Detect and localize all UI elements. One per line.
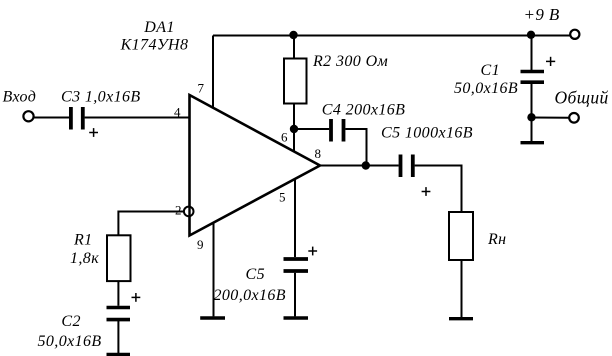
capacitor C3 plates [71, 107, 83, 130]
op-amp DA1 triangle [190, 95, 321, 236]
svg-text:C2: C2 [61, 313, 80, 330]
wire: C5 output to Rн [415, 166, 462, 213]
polarity + of C5 output [422, 187, 431, 196]
node: pin6 junction [290, 125, 298, 133]
svg-text:C5 1000x16В: C5 1000x16В [381, 125, 473, 142]
wire: pin 7 supply drop [212, 36, 214, 109]
svg-text:9: 9 [197, 237, 204, 252]
resistor R1 body [107, 235, 131, 281]
svg-text:Вход: Вход [3, 89, 37, 106]
wire: +9V top rail [213, 35, 570, 37]
svg-text:DA1: DA1 [143, 19, 175, 36]
wire: R2 bottom lead [293, 104, 295, 130]
svg-text:1,8к: 1,8к [70, 250, 99, 267]
terminal Общий [569, 113, 579, 123]
terminal +9 V [570, 30, 579, 39]
svg-text:Общий: Общий [555, 88, 609, 108]
wire: C3 to pin 4 [85, 117, 190, 119]
wire: Rн to ground [461, 260, 463, 317]
wire: input to C3 [33, 117, 69, 119]
wire: R2 top lead [293, 36, 295, 59]
svg-text:Rн: Rн [487, 231, 507, 248]
svg-text:К174УН8: К174УН8 [120, 37, 189, 54]
polarity + of C3 [89, 128, 98, 137]
svg-text:50,0x16В: 50,0x16В [38, 333, 102, 350]
svg-text:C5: C5 [246, 266, 265, 283]
wire: C1 bottom lead [531, 84, 533, 118]
svg-text:50,0x16В: 50,0x16В [454, 80, 518, 97]
wire: C4 left lead [294, 128, 329, 130]
capacitor C5 (output) plates [401, 155, 413, 178]
polarity + of C1 [546, 57, 555, 66]
node: output junction [362, 161, 370, 169]
svg-text:R2 300 Ом: R2 300 Ом [312, 53, 388, 70]
ground under C1 [521, 141, 545, 144]
wire: pin 5 to C5 [294, 179, 296, 257]
ground under pin 9 [200, 316, 225, 319]
capacitor C2 plates [107, 308, 131, 320]
svg-text:C1: C1 [481, 62, 500, 79]
svg-text:2: 2 [175, 203, 182, 218]
node: rail junction at C1 [527, 31, 535, 39]
polarity + of C2 [132, 293, 141, 302]
capacitor C4 plates [331, 119, 344, 142]
ground under C2 [107, 353, 131, 356]
svg-text:6: 6 [281, 130, 288, 145]
svg-text:+9 В: +9 В [524, 5, 560, 24]
wire: C5 bottom to ground [294, 273, 296, 317]
svg-text:200,0x16В: 200,0x16В [214, 287, 286, 304]
svg-text:7: 7 [198, 81, 205, 96]
wire: to common terminal [532, 117, 570, 119]
svg-text:8: 8 [315, 146, 322, 161]
wire: junction to pin 6 on op-amp edge [293, 129, 295, 152]
resistor Rн body [449, 212, 473, 260]
polarity + of C5 bottom [308, 247, 317, 256]
wire: left edge through pin2 circle [188, 206, 190, 217]
svg-text:C3 1,0x16В: C3 1,0x16В [61, 89, 141, 106]
wire: pin 9 to ground [213, 223, 215, 317]
capacitor C1 plates [521, 72, 545, 83]
terminal Вход [23, 111, 33, 121]
wire: C2 to ground [117, 321, 119, 353]
wire: C4 right lead to output node [345, 129, 366, 166]
ground under Rн [449, 317, 473, 320]
svg-text:5: 5 [279, 190, 286, 205]
svg-text:R1: R1 [73, 232, 93, 249]
node: rail junction at R2 [289, 31, 297, 39]
wire: pin 2 feedback lead [118, 212, 183, 236]
node: common junction [527, 113, 535, 121]
capacitor C5 (bottom) plates [284, 259, 309, 271]
wire: R1 to C2 [117, 281, 119, 306]
wire: C1 top lead [531, 36, 533, 71]
wire: common to ground [531, 118, 533, 142]
pin 2 inversion circle [184, 207, 194, 217]
wire: output from pin 8 [320, 165, 399, 167]
svg-text:C4 200x16В: C4 200x16В [322, 102, 406, 119]
ground under C5 [284, 316, 309, 319]
resistor R2 body [284, 59, 307, 104]
